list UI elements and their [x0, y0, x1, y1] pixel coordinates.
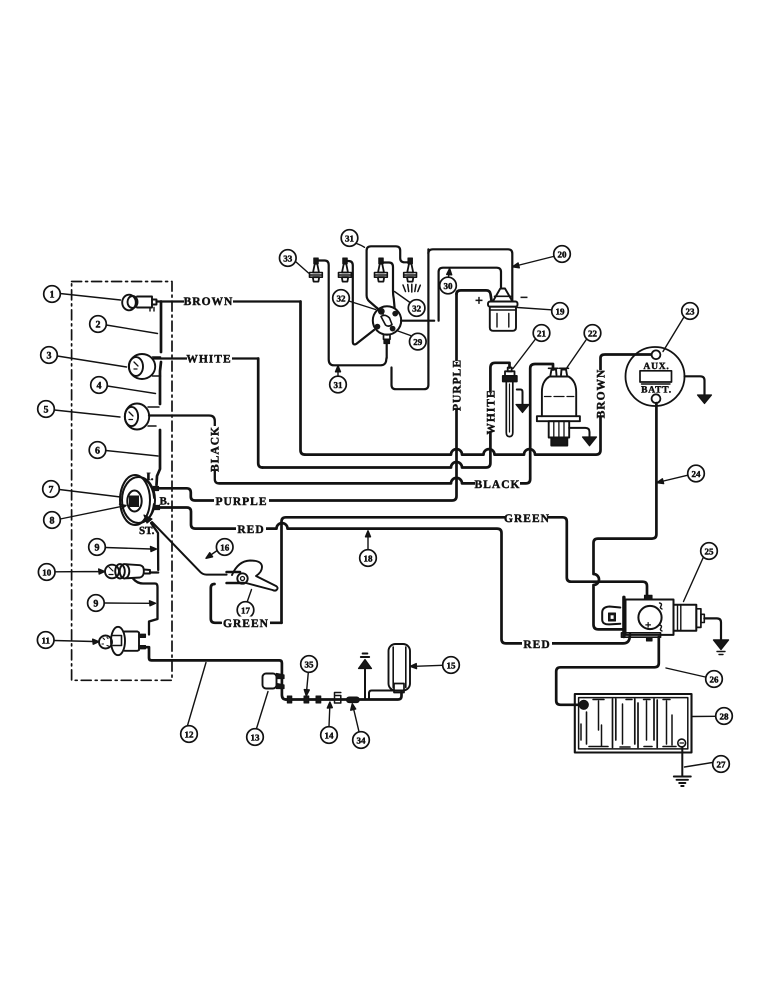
svg-text:2: 2 — [96, 320, 101, 331]
svg-text:AUX.: AUX. — [643, 362, 669, 372]
panel bus wire — [157, 302, 162, 486]
leader 1 — [60, 294, 121, 301]
ammeter labels — [641, 362, 672, 396]
callout 9a — [89, 539, 106, 556]
switch11 terminals — [139, 634, 146, 637]
callout 4 — [91, 377, 108, 394]
label WHITE horizontal — [186, 352, 232, 366]
svg-text:15: 15 — [447, 660, 457, 670]
svg-text:14: 14 — [325, 730, 335, 740]
callout 2 — [90, 316, 107, 333]
callout 1 — [44, 286, 61, 303]
leader 9b — [104, 601, 155, 606]
spark plug 33 — [310, 258, 323, 282]
light switch 11 — [99, 627, 139, 655]
battery 28 — [575, 694, 692, 753]
cigar lighter 1 — [122, 295, 156, 311]
regulator 22 — [537, 368, 580, 445]
leader 28 — [692, 715, 715, 717]
leader 29 — [397, 331, 411, 336]
svg-text:21: 21 — [537, 328, 547, 338]
wire labels — [184, 295, 608, 652]
leader 14 — [327, 702, 332, 727]
bus B white row — [263, 363, 510, 468]
callout 23 — [682, 303, 699, 320]
spark marks under plug 4 — [403, 284, 420, 292]
label GREEN bottom — [222, 617, 270, 631]
leader 20 — [513, 257, 554, 268]
wire plug B to distributor — [347, 261, 374, 344]
ground from starter — [704, 618, 721, 640]
label BLACK row — [475, 478, 521, 492]
label RED lower — [522, 638, 552, 652]
svg-text:7: 7 — [49, 485, 54, 496]
svg-text:+: + — [475, 294, 483, 309]
leader 13 — [257, 692, 269, 729]
callout 29 — [410, 333, 427, 350]
callout 5 — [38, 401, 55, 418]
callout 35 — [301, 656, 318, 673]
leader 15 — [410, 664, 442, 669]
wire 16 diagonal from terminal ST — [152, 522, 227, 575]
svg-text:35: 35 — [305, 659, 315, 669]
wire 26 starter to battery — [556, 637, 659, 705]
svg-text:12: 12 — [185, 729, 195, 739]
label BROWN vertical — [594, 369, 608, 419]
bead 4 — [335, 693, 341, 704]
ground from ammeter — [685, 376, 705, 395]
ground from battery 27 — [681, 747, 683, 776]
spark plug 4th — [404, 258, 417, 282]
starter motor 25 — [602, 595, 704, 641]
svg-text:19: 19 — [556, 306, 566, 316]
svg-text:16: 16 — [220, 542, 230, 552]
callout 20 — [554, 246, 571, 263]
svg-text:PURPLE: PURPLE — [452, 359, 464, 411]
svg-text:18: 18 — [364, 553, 374, 563]
svg-text:PURPLE: PURPLE — [216, 496, 268, 508]
svg-text:31: 31 — [345, 233, 355, 243]
callout 31b — [330, 376, 347, 393]
svg-text:25: 25 — [705, 546, 715, 556]
leader 6 — [106, 451, 158, 457]
leader 27 — [685, 763, 713, 768]
svg-text:23: 23 — [686, 306, 696, 316]
leader 35 — [304, 673, 309, 696]
callout 7 — [43, 481, 60, 498]
callout 3 — [41, 347, 58, 364]
leader 3 — [57, 356, 126, 367]
callout 22 — [584, 325, 601, 342]
temp gauge 5 — [125, 404, 159, 430]
bead 34 pill — [347, 697, 360, 703]
panel bus wire lower — [133, 523, 158, 635]
leader 21 — [513, 339, 536, 369]
callout 26 — [706, 671, 723, 688]
leader 24 — [657, 475, 688, 483]
label PURPLE horizontal — [214, 495, 269, 509]
callout 19 — [552, 303, 569, 320]
callout 21 — [533, 325, 550, 342]
label WHITE vertical — [484, 389, 498, 434]
svg-text:26: 26 — [710, 674, 720, 684]
wire GREEN loop under switch 17 — [211, 584, 282, 623]
spark plug 32b — [375, 258, 388, 282]
svg-text:RED: RED — [523, 639, 550, 651]
wire gauge3 to WHITE — [154, 357, 258, 359]
switch and coil terminal labels — [139, 291, 651, 632]
fuel gauge 3 — [129, 354, 161, 379]
leader 7 — [59, 490, 120, 498]
callout 9b — [88, 595, 105, 612]
terminal ST — [144, 515, 152, 523]
leader 4 — [107, 386, 155, 394]
svg-text:RED: RED — [237, 524, 264, 536]
svg-text:32: 32 — [412, 303, 422, 313]
distributor 29 — [373, 306, 401, 334]
svg-text:WHITE: WHITE — [186, 354, 231, 366]
leader 23 — [663, 318, 684, 352]
label RED horizontal — [236, 523, 266, 537]
svg-text:BROWN: BROWN — [596, 369, 608, 419]
svg-text:10: 10 — [42, 567, 52, 577]
callout 28 — [716, 708, 733, 725]
wire plug A to junction 31 — [318, 261, 386, 366]
wire PURPLE top to coil plus — [457, 290, 492, 300]
bus A brown row — [305, 355, 652, 455]
svg-text:1: 1 — [50, 290, 55, 301]
ground on bead line — [364, 669, 366, 700]
svg-text:32: 32 — [337, 293, 347, 303]
callout 31a — [341, 230, 358, 247]
svg-text:24: 24 — [692, 469, 702, 479]
callout 11 — [37, 632, 54, 649]
wire plug C to distributor — [383, 263, 394, 309]
svg-text:29: 29 — [413, 337, 423, 347]
wire BLACK vertical lower — [215, 471, 219, 483]
wire WHITE vertical to bus B — [258, 359, 262, 468]
instrument panel dashed enclosure — [72, 282, 172, 681]
svg-text:BLACK: BLACK — [210, 426, 222, 472]
svg-text:3: 3 — [47, 351, 52, 362]
ignition switch 7 — [120, 475, 155, 525]
leader 32b — [395, 292, 411, 303]
leader 33 — [296, 262, 309, 274]
svg-text:B.: B. — [160, 496, 170, 508]
svg-text:+: + — [645, 620, 651, 632]
wire lamp foot to ground junction — [369, 691, 394, 700]
wire lighter to BROWN — [157, 300, 301, 302]
svg-text:33: 33 — [283, 253, 293, 263]
callout 6 — [89, 442, 106, 459]
headlamp 15 — [389, 644, 411, 693]
svg-text:GREEN: GREEN — [504, 513, 550, 525]
leader 31b — [336, 366, 341, 376]
svg-text:BROWN: BROWN — [184, 296, 234, 308]
bead 3 — [316, 696, 321, 703]
distributor stem — [384, 335, 391, 340]
leader 22 — [566, 340, 586, 369]
callout 18 — [360, 550, 377, 567]
label BLACK vertical — [209, 426, 222, 472]
svg-text:GREEN: GREEN — [223, 618, 269, 630]
callout 17 — [237, 602, 254, 619]
wire BLACK row to item 22 — [219, 364, 553, 483]
label BROWN horizontal — [184, 295, 234, 309]
svg-text:34: 34 — [357, 735, 367, 745]
wire PURPLE row from terminal I — [159, 294, 457, 501]
leader 11 — [54, 639, 99, 644]
svg-text:I.: I. — [147, 471, 154, 483]
connector plug 13 — [263, 674, 285, 689]
svg-text:4: 4 — [97, 381, 102, 392]
wire GREEN row — [282, 517, 648, 623]
svg-text:8: 8 — [50, 516, 55, 527]
oil sender 21 — [503, 368, 517, 437]
svg-text:31: 31 — [334, 380, 344, 390]
leader 5 — [54, 410, 120, 417]
leader 18 — [366, 531, 371, 550]
leader 12 — [188, 663, 207, 726]
leader 26 — [666, 668, 705, 677]
leader 32a — [349, 301, 376, 310]
svg-text:9: 9 — [95, 543, 100, 554]
leader 31a — [357, 244, 365, 248]
svg-text:−: − — [520, 291, 528, 306]
svg-text:ST.: ST. — [139, 525, 155, 537]
ground from sender 21 — [517, 390, 523, 405]
label PURPLE vertical — [450, 359, 464, 411]
callout 24 — [688, 465, 705, 482]
wire BROWN vertical to bus A — [301, 302, 306, 455]
wire 20 coil high tension — [392, 249, 435, 389]
terminal I — [154, 487, 159, 491]
callout 16 — [216, 539, 233, 556]
leader 34 — [351, 704, 359, 732]
svg-text:BLACK: BLACK — [475, 479, 521, 491]
wire plug D loop 31 — [367, 246, 408, 308]
fuse holder 10 — [105, 564, 150, 578]
svg-text:20: 20 — [558, 249, 568, 259]
callout 10 — [38, 564, 55, 581]
callout 8 — [44, 512, 61, 529]
leader 30 — [447, 269, 452, 278]
svg-text:WHITE: WHITE — [486, 389, 498, 434]
bead 1 — [287, 696, 292, 703]
wire 24 ammeter to starter — [594, 403, 657, 629]
svg-text:5: 5 — [44, 405, 49, 416]
terminal B — [155, 506, 160, 510]
leader 8 — [60, 504, 126, 519]
leader 19 — [518, 308, 552, 310]
svg-text:17: 17 — [241, 605, 251, 615]
callout 25 — [701, 543, 718, 560]
svg-text:6: 6 — [95, 446, 100, 457]
svg-text:13: 13 — [251, 732, 261, 742]
wire 12 from switch11 — [146, 647, 287, 699]
callout 14 — [321, 727, 338, 744]
label GREEN row — [504, 512, 550, 526]
horn switch 17 — [227, 561, 278, 591]
leader lines — [54, 244, 715, 768]
callout 15 — [443, 657, 460, 674]
callout 12 — [181, 726, 198, 743]
wire 30 coil to distributor — [439, 268, 501, 321]
bead 35 — [304, 696, 309, 703]
svg-text:11: 11 — [41, 635, 50, 645]
ignition coil 19 — [488, 289, 518, 331]
svg-text:9: 9 — [93, 599, 98, 610]
callout 32b — [408, 300, 425, 317]
harness bead line 14 — [286, 693, 402, 700]
svg-text:22: 22 — [588, 328, 598, 338]
callout 27 — [713, 756, 730, 773]
callout 33 — [280, 250, 297, 267]
leader 25 — [684, 558, 704, 602]
svg-text:30: 30 — [444, 281, 454, 291]
callout 13 — [247, 729, 264, 746]
callout 30 — [440, 277, 457, 294]
spark plug 32a — [339, 258, 352, 282]
leader 16 — [206, 551, 217, 558]
ground from regulator 22 — [569, 428, 589, 437]
leader 17 — [247, 590, 251, 602]
callout 32a — [333, 290, 350, 307]
leader 9a — [105, 547, 156, 552]
svg-text:BATT.: BATT. — [641, 386, 672, 396]
ammeter AUX BATT 23 — [626, 347, 685, 406]
leader 10 — [55, 569, 105, 574]
svg-text:27: 27 — [717, 759, 727, 769]
leader 2 — [106, 325, 157, 334]
wire RED row from terminal B — [160, 508, 631, 644]
callout 34 — [353, 732, 370, 749]
wire gauge5 to BLACK vertical — [149, 416, 215, 427]
svg-text:28: 28 — [720, 711, 730, 721]
